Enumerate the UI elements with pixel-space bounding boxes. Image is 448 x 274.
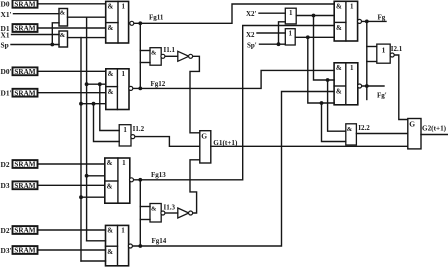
svg-text:Fg': Fg' (377, 92, 387, 100)
svg-text:SRAM: SRAM (14, 161, 35, 169)
svg-text:D0: D0 (1, 0, 10, 9)
svg-text:1: 1 (289, 9, 293, 17)
svg-text:I1.2: I1.2 (133, 125, 145, 133)
svg-text:X1: X1 (1, 30, 10, 39)
svg-text:SRAM: SRAM (14, 247, 35, 255)
svg-text:&: & (336, 88, 342, 96)
svg-text:&: & (347, 126, 353, 133)
svg-text:1: 1 (350, 64, 354, 72)
svg-text:&: & (60, 32, 66, 39)
svg-text:1: 1 (350, 2, 354, 10)
svg-text:I2.1: I2.1 (391, 45, 403, 53)
svg-text:&: & (108, 24, 114, 32)
svg-text:G1(t+1): G1(t+1) (213, 139, 238, 147)
svg-text:X2: X2 (246, 31, 255, 39)
svg-text:Sp: Sp (1, 40, 9, 49)
svg-text:X1': X1' (1, 10, 12, 19)
svg-text:1: 1 (121, 70, 125, 78)
svg-text:D2: D2 (1, 160, 10, 169)
svg-text:&: & (108, 3, 114, 11)
svg-text:I1.1: I1.1 (164, 46, 176, 54)
svg-text:I1.3: I1.3 (164, 204, 176, 212)
svg-text:SRAM: SRAM (14, 68, 35, 76)
svg-text:&: & (108, 70, 114, 78)
svg-text:Fg11: Fg11 (149, 14, 164, 22)
svg-text:D1': D1' (1, 89, 12, 98)
svg-text:1: 1 (122, 159, 126, 167)
svg-text:&: & (108, 88, 114, 96)
svg-text:&: & (107, 159, 113, 167)
svg-text:Fg: Fg (378, 14, 386, 22)
svg-text:1: 1 (121, 226, 125, 234)
svg-text:Fg12: Fg12 (151, 80, 166, 88)
svg-text:Fg14: Fg14 (152, 237, 167, 245)
svg-text:D3': D3' (1, 246, 12, 255)
svg-text:&: & (107, 183, 113, 191)
svg-text:D3: D3 (1, 181, 10, 190)
svg-text:SRAM: SRAM (14, 182, 35, 190)
svg-text:1: 1 (288, 30, 292, 38)
svg-text:&: & (107, 248, 113, 256)
svg-text:Sp': Sp' (247, 41, 257, 49)
svg-text:1: 1 (123, 126, 127, 134)
svg-text:D2': D2' (1, 226, 12, 235)
svg-text:SRAM: SRAM (14, 1, 35, 9)
svg-text:&: & (151, 50, 157, 57)
svg-text:X2': X2' (246, 10, 257, 18)
svg-text:G: G (201, 131, 207, 140)
svg-text:G: G (409, 119, 415, 128)
svg-text:&: & (336, 64, 342, 72)
svg-text:&: & (336, 3, 342, 11)
svg-text:G2(t+1): G2(t+1) (422, 125, 447, 133)
svg-text:1: 1 (382, 45, 386, 54)
svg-text:SRAM: SRAM (14, 25, 35, 33)
svg-text:SRAM: SRAM (14, 89, 35, 97)
svg-text:&: & (60, 10, 66, 17)
svg-text:I2.2: I2.2 (358, 124, 370, 132)
svg-text:&: & (336, 24, 342, 32)
svg-text:Fg13: Fg13 (151, 171, 166, 179)
svg-text:&: & (107, 227, 113, 235)
svg-text:SRAM: SRAM (14, 227, 35, 235)
svg-text:D0': D0' (1, 67, 12, 76)
svg-text:1: 1 (122, 2, 126, 10)
svg-text:&: & (151, 205, 157, 212)
